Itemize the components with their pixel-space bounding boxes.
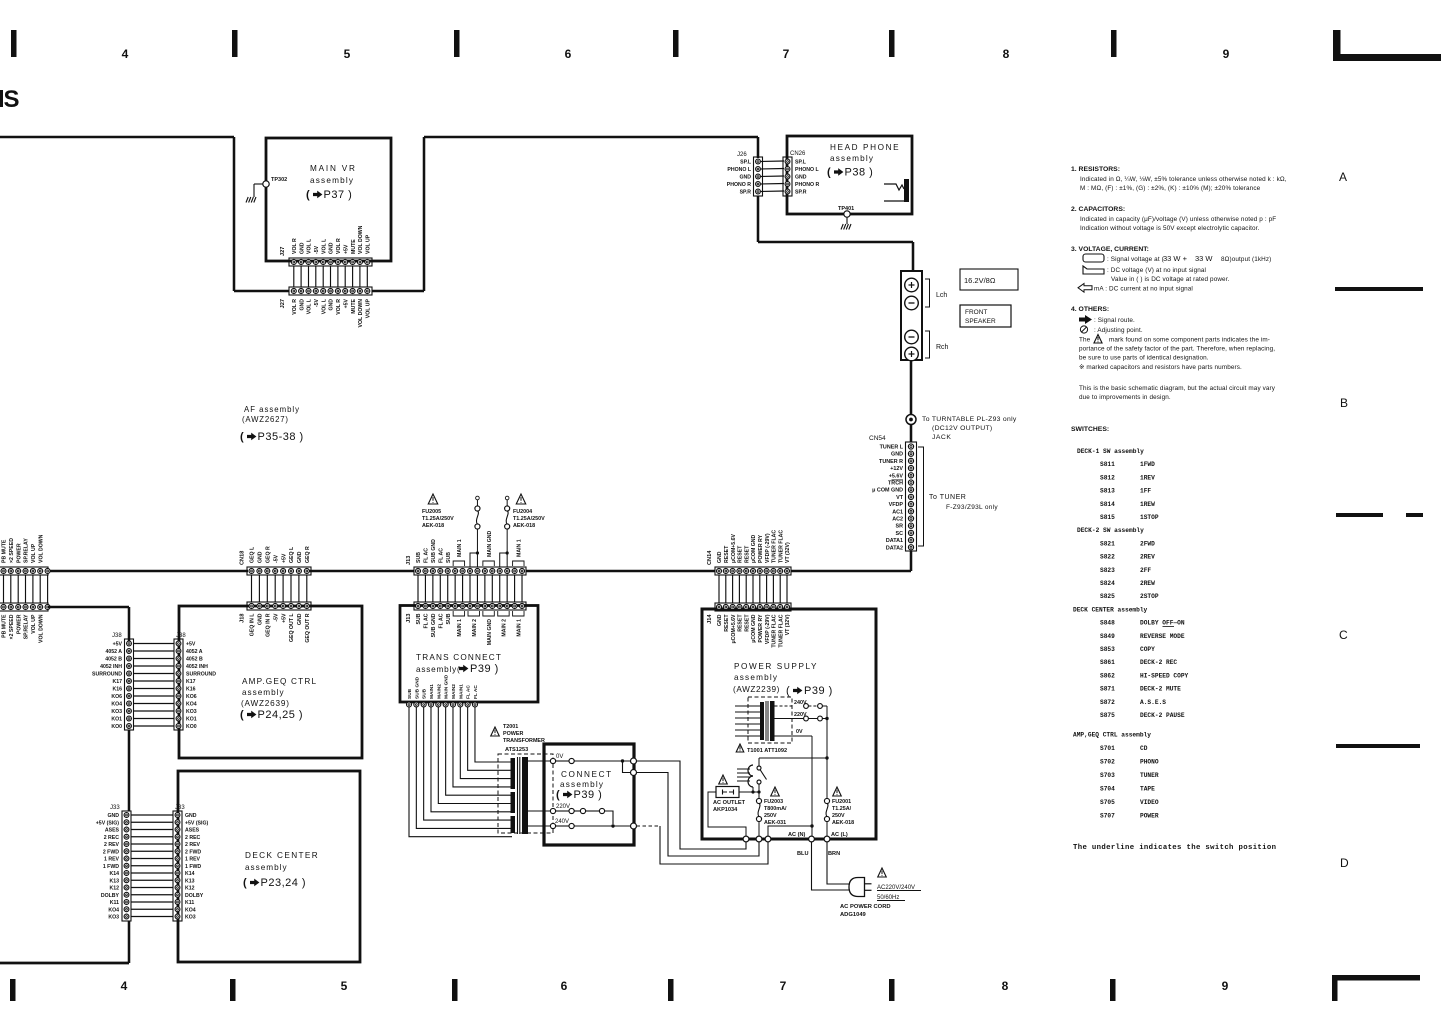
svg-text:SP.RELAY: SP.RELAY <box>24 538 30 563</box>
svg-text:assembly: assembly <box>734 673 778 682</box>
svg-text:K13: K13 <box>185 878 195 884</box>
svg-text:AC POWER CORD: AC POWER CORD <box>840 904 891 910</box>
svg-text:DECK-1 SW assembly: DECK-1 SW assembly <box>1077 448 1144 455</box>
svg-text:KO3: KO3 <box>108 915 119 921</box>
svg-text:T1001 ATT1092: T1001 ATT1092 <box>747 748 787 754</box>
note 4 OTHERS <box>1071 306 1276 401</box>
svg-text:P39 ): P39 ) <box>470 663 499 675</box>
svg-text:SUB GND: SUB GND <box>414 676 420 699</box>
connector J27 lower row <box>280 287 372 327</box>
svg-text:ASES: ASES <box>185 828 200 834</box>
svg-text:(AWZ2239): (AWZ2239) <box>733 685 780 694</box>
svg-text:+12V: +12V <box>890 466 903 472</box>
svg-text:MAIN1: MAIN1 <box>458 684 464 699</box>
svg-text:MUTE: MUTE <box>351 298 357 313</box>
svg-text:VOL UP: VOL UP <box>366 298 372 318</box>
svg-text:PB MUTE: PB MUTE <box>2 614 8 638</box>
svg-text:-5V: -5V <box>314 245 320 254</box>
svg-text:3. VOLTAGE, CURRENT:: 3. VOLTAGE, CURRENT: <box>1071 246 1149 253</box>
transformer T1001 <box>735 697 792 754</box>
svg-text:GEQ R: GEQ R <box>305 546 311 563</box>
MAIN VR assembly box <box>266 138 391 261</box>
svg-text:MAIN 1: MAIN 1 <box>457 539 463 557</box>
AC rating labels <box>840 868 921 918</box>
svg-text:A.S.E.S: A.S.E.S <box>1140 699 1166 706</box>
note 2 CAPACITORS <box>1071 206 1276 232</box>
svg-text:GND: GND <box>717 614 723 626</box>
svg-text:+5V: +5V <box>113 642 123 648</box>
BLU wire <box>797 842 850 890</box>
svg-text:-5V: -5V <box>273 554 279 563</box>
svg-text:8Ω)output (1kHz): 8Ω)output (1kHz) <box>1221 256 1271 263</box>
svg-text:1 FWD: 1 FWD <box>103 864 119 870</box>
connector CN14 <box>707 530 791 575</box>
svg-text:ATS1253: ATS1253 <box>505 747 528 753</box>
svg-text:VOL UP: VOL UP <box>366 234 372 254</box>
svg-text:4: 4 <box>121 979 128 993</box>
svg-text:KO6: KO6 <box>186 694 197 700</box>
svg-text:PHONO R: PHONO R <box>795 182 819 188</box>
svg-text:AC (N): AC (N) <box>788 832 806 838</box>
svg-text:To TUNER: To TUNER <box>929 494 966 501</box>
svg-text:S702: S702 <box>1100 758 1115 765</box>
svg-text:μCOM GND: μCOM GND <box>751 535 757 563</box>
svg-text:VT: VT <box>896 495 904 501</box>
svg-text:C: C <box>1339 628 1348 642</box>
svg-text:P39 ): P39 ) <box>804 685 833 697</box>
svg-text:S849: S849 <box>1100 633 1115 640</box>
svg-text:F-Z93/Z93L only: F-Z93/Z93L only <box>946 504 998 511</box>
svg-text:KO1: KO1 <box>111 717 122 723</box>
svg-text:DECK CENTER: DECK CENTER <box>245 851 319 860</box>
svg-text:DATA1: DATA1 <box>886 538 903 544</box>
svg-text:K12: K12 <box>185 886 195 892</box>
svg-text:VFDP: VFDP <box>889 502 904 508</box>
svg-text:AC1: AC1 <box>892 509 903 515</box>
svg-text:SUB: SUB <box>422 688 428 699</box>
AC power plug <box>849 878 872 897</box>
svg-text:VOL DOWN: VOL DOWN <box>38 614 44 643</box>
svg-text:SPEAKER: SPEAKER <box>965 318 996 325</box>
svg-text:P23,24 ): P23,24 ) <box>261 877 307 889</box>
wire top bus <box>0 137 234 291</box>
svg-text:4. OTHERS:: 4. OTHERS: <box>1071 306 1109 313</box>
svg-text:SUB: SUB <box>407 688 413 699</box>
svg-text:SURROUND: SURROUND <box>186 672 216 678</box>
svg-text:MAIN1: MAIN1 <box>429 684 435 699</box>
svg-text:T2001: T2001 <box>503 724 518 730</box>
svg-text:PHONO L: PHONO L <box>795 167 819 173</box>
svg-text:POWER SUPPLY: POWER SUPPLY <box>734 662 818 671</box>
svg-text:(AWZ2639): (AWZ2639) <box>241 699 290 708</box>
svg-text:8: 8 <box>1002 979 1009 993</box>
wire J33 to bottom left <box>0 921 129 963</box>
svg-text:2 REV: 2 REV <box>185 842 201 848</box>
svg-text:S825: S825 <box>1100 593 1115 600</box>
svg-text:AMP.GEQ CTRL: AMP.GEQ CTRL <box>242 677 317 686</box>
CONNECT assembly box <box>544 744 634 845</box>
svg-text:assembly(: assembly( <box>416 665 461 674</box>
svg-text:be sure to use parts of identi: be sure to use parts of identical design… <box>1079 355 1209 362</box>
svg-text:GEQ L: GEQ L <box>289 546 295 563</box>
svg-text:1REW: 1REW <box>1140 501 1155 508</box>
svg-text:1STOP: 1STOP <box>1140 514 1159 521</box>
svg-text:BRN: BRN <box>828 851 840 857</box>
svg-text:1REV: 1REV <box>1140 474 1155 481</box>
svg-text:S813: S813 <box>1100 488 1115 495</box>
svg-text:GND: GND <box>107 813 119 819</box>
svg-text:2FWD: 2FWD <box>1140 540 1155 547</box>
svg-text:SUB: SUB <box>446 552 452 563</box>
svg-text:SUB: SUB <box>416 613 422 624</box>
svg-text:9: 9 <box>1223 47 1230 61</box>
svg-text:(: ( <box>240 709 244 721</box>
svg-text:GND: GND <box>891 452 903 458</box>
wire outlet left to terminal <box>708 792 746 836</box>
svg-text:AEK-018: AEK-018 <box>513 523 535 529</box>
svg-text:Lch: Lch <box>936 292 947 299</box>
note 1 RESISTORS <box>1071 166 1287 192</box>
svg-text:SUB: SUB <box>416 552 422 563</box>
svg-text:S812: S812 <box>1100 474 1115 481</box>
front panel connector lower row <box>0 603 50 643</box>
connector J38 right column <box>174 633 216 730</box>
svg-text:AC2: AC2 <box>892 517 903 523</box>
svg-text:VT (32V): VT (32V) <box>785 542 791 563</box>
svg-text:K11: K11 <box>185 900 194 906</box>
svg-text:MAIN 1: MAIN 1 <box>457 619 463 637</box>
svg-text:KO0: KO0 <box>111 724 122 730</box>
svg-text:1. RESISTORS:: 1. RESISTORS: <box>1071 166 1120 173</box>
svg-text:KO1: KO1 <box>186 717 197 723</box>
AC outlet AKP1034 <box>713 775 746 813</box>
svg-text:J33: J33 <box>110 805 120 811</box>
svg-text:S848: S848 <box>1100 620 1115 627</box>
svg-text:MAIN GND: MAIN GND <box>487 619 493 645</box>
svg-text:250V: 250V <box>764 813 777 819</box>
svg-text:AMP,GEQ CTRL assembly: AMP,GEQ CTRL assembly <box>1073 732 1151 739</box>
svg-text:×2 SPEED: ×2 SPEED <box>9 614 15 639</box>
svg-text:Rch: Rch <box>936 344 949 351</box>
svg-text:S707: S707 <box>1100 812 1115 819</box>
svg-text:2REV: 2REV <box>1140 554 1155 561</box>
switches list <box>1071 426 1189 819</box>
TRANS CONNECT bottom pins <box>407 674 479 707</box>
svg-text:GEQ IN L: GEQ IN L <box>250 613 256 637</box>
svg-text:KO4: KO4 <box>111 702 122 708</box>
svg-text:SUB: SUB <box>446 613 452 624</box>
svg-text:SUB GND: SUB GND <box>431 539 437 563</box>
svg-text:P38 ): P38 ) <box>845 167 874 179</box>
svg-text:FU2005: FU2005 <box>422 509 441 515</box>
svg-text:COPY: COPY <box>1140 646 1155 653</box>
svg-text:To TURNTABLE PL-Z93 only: To TURNTABLE PL-Z93 only <box>922 416 1017 423</box>
svg-text:AKP1034: AKP1034 <box>713 807 738 813</box>
svg-text:DOLBY OFF—ON: DOLBY OFF—ON <box>1140 620 1185 627</box>
svg-text:MAIN GND: MAIN GND <box>487 531 493 557</box>
svg-text:GND: GND <box>329 242 335 254</box>
DECK CENTER assembly box <box>178 771 360 962</box>
svg-text:: DC voltage (V) at no input s: : DC voltage (V) at no input signal <box>1107 267 1206 274</box>
svg-text:due to improvements in design.: due to improvements in design. <box>1079 394 1171 401</box>
connector CN26 <box>783 151 819 196</box>
svg-text:PHONO: PHONO <box>1140 758 1159 765</box>
svg-text:CONNECT: CONNECT <box>561 770 613 779</box>
svg-text:S872: S872 <box>1100 699 1115 706</box>
svg-text:: Signal voltage at (: : Signal voltage at ( <box>1107 256 1165 263</box>
svg-text:RESET: RESET <box>744 545 750 563</box>
svg-text:VOL UP: VOL UP <box>31 614 37 634</box>
220V tap <box>528 804 613 824</box>
svg-text:TUNER L: TUNER L <box>880 445 904 451</box>
svg-text:K14: K14 <box>109 871 119 877</box>
connector J27 upper row <box>280 225 372 266</box>
svg-text:KO3: KO3 <box>111 709 122 715</box>
svg-text:μCOM GND: μCOM GND <box>751 614 757 642</box>
test point TP401 <box>838 206 854 224</box>
svg-text:AEK-031: AEK-031 <box>764 820 786 826</box>
front speaker terminal block <box>901 271 922 361</box>
svg-text:MAIN2: MAIN2 <box>451 684 457 699</box>
svg-text:(DC12V OUTPUT): (DC12V OUTPUT) <box>932 425 992 432</box>
svg-text:TUNER FLAC: TUNER FLAC <box>772 530 778 563</box>
svg-text:Value in ( ) is DC voltag: Value in ( ) is DC voltage at rated powe… <box>1111 276 1230 283</box>
connector J33 right column <box>173 805 208 921</box>
svg-text:ASES: ASES <box>105 828 120 834</box>
svg-text:DECK-2 MUTE: DECK-2 MUTE <box>1140 686 1181 693</box>
svg-text:This is the basic schematic di: This is the basic schematic diagram, but… <box>1079 385 1276 392</box>
svg-text:4052 A: 4052 A <box>105 649 122 655</box>
svg-text:KO0: KO0 <box>186 724 197 730</box>
svg-text:2. CAPACITORS:: 2. CAPACITORS: <box>1071 206 1125 213</box>
connector J13 upper row <box>406 531 526 575</box>
svg-text:K12: K12 <box>109 886 119 892</box>
svg-text:MAIN 1: MAIN 1 <box>517 619 523 637</box>
svg-text:FU2003: FU2003 <box>764 799 783 805</box>
svg-text:DECK CENTER assembly: DECK CENTER assembly <box>1073 606 1148 613</box>
note 3 VOLTAGE CURRENT <box>1071 246 1271 293</box>
svg-text:TRCH: TRCH <box>888 481 903 487</box>
svg-text:33 W +: 33 W + <box>1163 254 1188 263</box>
svg-text:A: A <box>1339 170 1347 184</box>
svg-text:+5.6V: +5.6V <box>889 473 904 479</box>
svg-text:DATA2: DATA2 <box>886 545 903 551</box>
svg-text:POWER RY: POWER RY <box>758 614 764 643</box>
wire bus to headphone <box>758 137 913 271</box>
svg-text:FL AC: FL AC <box>438 548 444 563</box>
svg-text:TUNER FLAC: TUNER FLAC <box>772 614 778 647</box>
connector J18 <box>240 602 312 643</box>
svg-text:240V: 240V <box>555 819 569 825</box>
svg-text:+5V: +5V <box>186 642 196 648</box>
svg-text:(AWZ2627): (AWZ2627) <box>242 415 289 424</box>
wire J38 to J33 riser <box>128 730 131 811</box>
svg-text:GND: GND <box>717 551 723 563</box>
svg-text:GND: GND <box>299 299 305 311</box>
svg-text:MAIN 2: MAIN 2 <box>502 619 508 637</box>
svg-text:S824: S824 <box>1100 580 1115 587</box>
connector CN18 <box>240 546 312 575</box>
svg-text:MUTE: MUTE <box>351 239 357 254</box>
svg-text:7: 7 <box>783 47 790 61</box>
0V rail to AC N <box>768 824 814 836</box>
wire bus into J27 <box>234 290 289 293</box>
svg-text:TUNER R: TUNER R <box>879 459 903 465</box>
svg-text:FL AC: FL AC <box>424 613 430 628</box>
svg-text:JACK: JACK <box>932 434 951 441</box>
svg-text:CN54: CN54 <box>869 435 886 442</box>
svg-text:KO3: KO3 <box>186 709 197 715</box>
svg-text:GND: GND <box>299 242 305 254</box>
svg-text:2STOP: 2STOP <box>1140 593 1159 600</box>
svg-text:portance of the safety factor: portance of the safety factor of the par… <box>1079 346 1275 353</box>
front panel connector upper row <box>0 534 50 575</box>
svg-text:VOL DOWN: VOL DOWN <box>38 534 44 563</box>
svg-text:CN14: CN14 <box>707 550 713 565</box>
svg-text:AEK-018: AEK-018 <box>422 523 444 529</box>
wire outlet right to relay <box>739 790 761 793</box>
svg-text:GND: GND <box>795 175 807 181</box>
svg-text:KO4: KO4 <box>185 907 196 913</box>
svg-text:1 FWD: 1 FWD <box>185 864 201 870</box>
svg-text:MAIN GND: MAIN GND <box>444 674 450 699</box>
svg-text:KO4: KO4 <box>186 702 197 708</box>
wire middle bus <box>48 570 715 573</box>
svg-text:FL AC: FL AC <box>424 548 430 563</box>
svg-text:+5V: +5V <box>343 244 349 254</box>
svg-text:CN18: CN18 <box>240 551 246 565</box>
svg-text:M : MΩ, (F) : ±1%, (G) : ±2%,: M : MΩ, (F) : ±1%, (G) : ±2%, (K) : ±10%… <box>1080 185 1261 192</box>
ground at TP302 <box>246 197 256 203</box>
wires front panel rows <box>4 575 48 603</box>
svg-text:S862: S862 <box>1100 672 1115 679</box>
POWER SUPPLY assembly box <box>702 609 876 839</box>
svg-text:RESET: RESET <box>724 614 730 632</box>
svg-text:S704: S704 <box>1100 785 1115 792</box>
wires CN14 to J14 <box>719 575 787 603</box>
svg-text:GND: GND <box>329 299 335 311</box>
svg-text:4052 B: 4052 B <box>105 657 122 663</box>
svg-text:SUB GND: SUB GND <box>431 613 437 637</box>
svg-text:: Adjusting point.: : Adjusting point. <box>1094 327 1143 334</box>
svg-text:-5V: -5V <box>273 613 279 622</box>
svg-text:S: S <box>4 86 20 113</box>
relay coil <box>737 765 753 792</box>
svg-text:2 REC: 2 REC <box>185 835 201 841</box>
wires J13 row to row <box>418 575 522 602</box>
svg-text:2FF: 2FF <box>1140 567 1151 574</box>
svg-text:μCOM+5.6V: μCOM+5.6V <box>731 614 737 644</box>
svg-text:μ COM GND: μ COM GND <box>872 488 903 494</box>
connector J14 <box>707 603 791 648</box>
svg-text:J14: J14 <box>707 614 713 624</box>
svg-text:VOL UP: VOL UP <box>31 543 37 563</box>
AMP.GEQ CTRL assembly box <box>179 606 362 758</box>
wires TRANS CONNECT to transformer T2001 <box>409 707 512 837</box>
svg-text:GND: GND <box>258 551 264 563</box>
svg-text:T1.25A/: T1.25A/ <box>832 806 852 812</box>
transformer T2001 <box>491 724 553 834</box>
FRONT SPEAKER box <box>960 305 1011 327</box>
svg-text:CD: CD <box>1140 745 1148 752</box>
svg-text:5: 5 <box>344 47 351 61</box>
svg-text:POWER RY: POWER RY <box>758 534 764 563</box>
svg-text:AC OUTLET: AC OUTLET <box>713 800 746 806</box>
svg-text:GEQ OUT L: GEQ OUT L <box>289 613 295 642</box>
svg-text:SR: SR <box>896 524 904 530</box>
TRANS CONNECT assembly box <box>400 606 538 703</box>
240V tap T1001 <box>775 700 828 708</box>
svg-text:PHONO L: PHONO L <box>727 167 751 173</box>
ground at TP401 <box>841 224 851 230</box>
svg-text:GEQ L: GEQ L <box>250 546 256 563</box>
svg-text:TUNER FLAC: TUNER FLAC <box>778 614 784 647</box>
svg-text:8: 8 <box>1003 47 1010 61</box>
svg-text:K17: K17 <box>112 679 122 685</box>
svg-text:REVERSE MODE: REVERSE MODE <box>1140 633 1185 640</box>
svg-text:(: ( <box>786 685 790 697</box>
svg-text:P39 ): P39 ) <box>574 789 603 801</box>
svg-text:HEAD PHONE: HEAD PHONE <box>830 143 900 152</box>
svg-text:GEQ OUT R: GEQ OUT R <box>305 613 311 642</box>
svg-text:220V: 220V <box>556 804 570 810</box>
svg-text:S811: S811 <box>1100 461 1115 468</box>
svg-text:P24,25 ): P24,25 ) <box>258 709 304 721</box>
svg-text:B: B <box>1340 396 1348 410</box>
svg-text:assembly: assembly <box>245 863 288 872</box>
svg-text:1 REV: 1 REV <box>104 857 120 863</box>
wire 240V to CONNECT <box>637 826 769 864</box>
svg-text:assembly: assembly <box>830 154 874 163</box>
svg-text:MAIN 1: MAIN 1 <box>517 539 523 557</box>
connector CN54 <box>869 435 917 551</box>
fuse FU2003 <box>756 784 787 836</box>
svg-text:VFDP (-29V): VFDP (-29V) <box>765 533 771 563</box>
svg-text:FRONT: FRONT <box>965 309 987 316</box>
svg-text:MAIN2: MAIN2 <box>436 684 442 699</box>
svg-text:250V: 250V <box>832 813 845 819</box>
headphone jack icon <box>884 179 909 202</box>
svg-text:VOL L: VOL L <box>307 298 313 314</box>
svg-text:VOL R: VOL R <box>292 299 298 315</box>
Rch bracket <box>925 331 949 358</box>
svg-text:4052 A: 4052 A <box>186 649 203 655</box>
wires J38 left to right <box>134 644 175 727</box>
svg-text:-5V: -5V <box>314 298 320 307</box>
svg-text:S875: S875 <box>1100 712 1115 719</box>
svg-text:S703: S703 <box>1100 772 1115 779</box>
connector J26 <box>727 152 763 196</box>
svg-text:AF assembly: AF assembly <box>244 405 300 414</box>
svg-text:S821: S821 <box>1100 540 1115 547</box>
wires J26 to CN26 <box>761 161 784 192</box>
svg-text:SP.R: SP.R <box>740 190 752 196</box>
svg-text:FL AC: FL AC <box>466 685 472 699</box>
underline note <box>1073 844 1276 852</box>
svg-text:K16: K16 <box>186 687 196 693</box>
svg-text:×2 SPEED: ×2 SPEED <box>9 538 15 563</box>
svg-text:The: The <box>1079 337 1091 344</box>
svg-text:6: 6 <box>561 979 568 993</box>
test point TP302 <box>254 177 287 197</box>
svg-text:SP.R: SP.R <box>795 190 807 196</box>
svg-text:J38: J38 <box>176 633 186 639</box>
svg-text:KO3: KO3 <box>185 915 196 921</box>
svg-text:T1.25A/250V: T1.25A/250V <box>422 516 454 522</box>
svg-text:BLU: BLU <box>797 851 809 857</box>
svg-text:TP302: TP302 <box>271 177 287 183</box>
svg-text:P37 ): P37 ) <box>324 189 353 201</box>
